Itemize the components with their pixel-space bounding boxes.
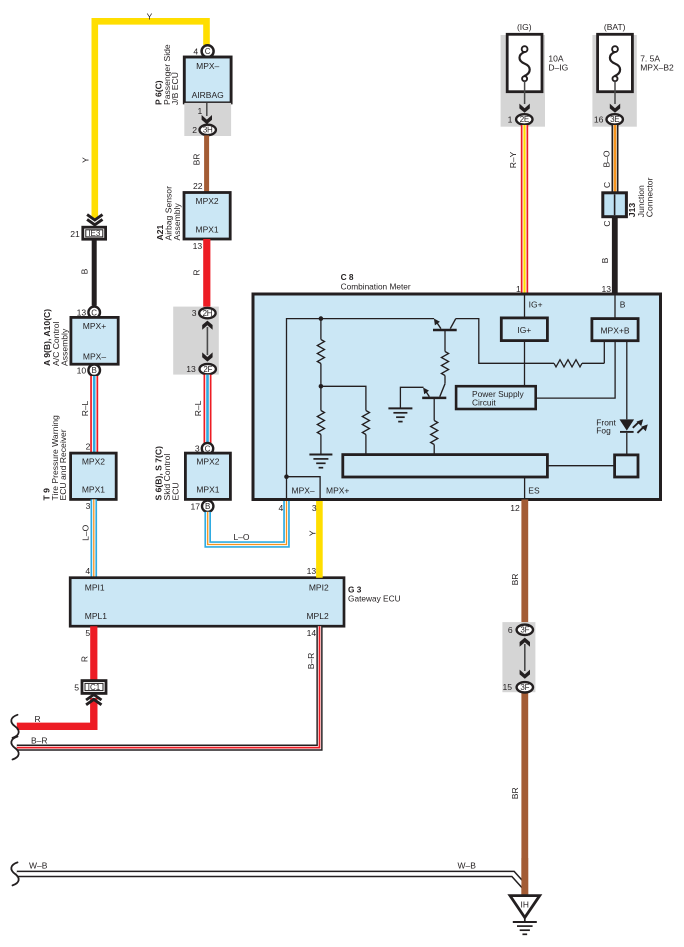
svg-text:MPX–B2: MPX–B2: [640, 62, 674, 72]
wire BR (over W-B junction): [521, 858, 528, 897]
wire BR (3H to A21): [204, 135, 209, 192]
svg-text:BR: BR: [510, 787, 520, 799]
svg-text:1: 1: [508, 114, 513, 124]
pin 10 connector B (A/C): [88, 364, 100, 376]
svg-text:MPL2: MPL2: [306, 611, 328, 621]
wire L-O (skid to meter MPX-): [208, 499, 287, 544]
connector 3F (pin 6): [517, 625, 533, 635]
svg-text:3F: 3F: [520, 626, 529, 635]
svg-text:5: 5: [74, 682, 79, 692]
svg-text:3: 3: [86, 501, 91, 511]
svg-text:12: 12: [510, 503, 520, 513]
wire R (A21 to 2H): [203, 239, 210, 308]
svg-text:MPX1: MPX1: [196, 485, 219, 495]
svg-text:2H: 2H: [203, 309, 213, 318]
wire L-O (T9 to gateway MPI1): [91, 499, 98, 577]
svg-text:L–O: L–O: [233, 532, 249, 542]
junction connector J13: [603, 193, 627, 217]
wire (B pin to MPX+B box): [614, 294, 616, 319]
svg-text:C 8: C 8: [341, 272, 354, 282]
connector 3H: [200, 125, 216, 135]
Skid Control ECU S6(B) S7(C): [185, 453, 230, 499]
Gateway ECU G3: [70, 578, 344, 627]
resistor R5: [431, 421, 438, 445]
svg-text:C: C: [602, 182, 612, 188]
wire (meter internal bus left): [287, 319, 435, 498]
svg-text:BR: BR: [191, 154, 201, 166]
svg-text:MPX+: MPX+: [83, 321, 106, 331]
svg-text:W–B: W–B: [29, 861, 48, 871]
svg-text:B: B: [600, 257, 610, 263]
svg-text:IG+: IG+: [517, 325, 531, 335]
svg-text:Assembly: Assembly: [172, 203, 182, 241]
svg-text:L–O: L–O: [80, 524, 90, 540]
svg-text:BR: BR: [510, 574, 520, 586]
svg-text:6: 6: [508, 625, 513, 635]
wire Y (meter MPX+ to gateway MPI2): [316, 499, 323, 577]
wire (Q2 emitter to ground): [400, 387, 423, 408]
svg-text:4: 4: [279, 503, 284, 513]
wire (MPX- / MPX+ terminal bracket): [287, 477, 321, 498]
wire B (IE3 to A/C pin 13): [92, 239, 97, 305]
svg-text:IC1: IC1: [88, 683, 101, 692]
svg-text:2F: 2F: [203, 365, 212, 374]
svg-text:ECU and Receiver: ECU and Receiver: [58, 429, 68, 500]
pin 13 connector C (A/C): [88, 307, 100, 319]
svg-text:MPX+: MPX+: [326, 486, 349, 496]
svg-text:R–L: R–L: [80, 400, 90, 416]
connector 3E: [607, 114, 623, 124]
wire (display bar to indicator square): [547, 465, 614, 467]
connector IE3 wire-end chevrons: [87, 215, 102, 220]
svg-text:MPX2: MPX2: [196, 196, 219, 206]
resistor R6: [554, 360, 582, 367]
wire-end chevrons (IC1): [86, 699, 101, 704]
wire (IG+ box to power supply circuit): [524, 341, 526, 387]
svg-text:2E: 2E: [520, 115, 529, 124]
svg-text:Fog: Fog: [596, 426, 611, 436]
pin 4 connector C (P6): [202, 45, 214, 57]
svg-text:MPX–: MPX–: [83, 351, 106, 361]
svg-text:ES: ES: [528, 486, 540, 496]
svg-text:B–O: B–O: [602, 150, 612, 167]
svg-text:R: R: [35, 714, 41, 724]
wire break squiggle (R): [11, 715, 18, 738]
svg-text:C: C: [91, 308, 97, 317]
Passenger Side J/B ECU P6(C): [184, 57, 231, 103]
ground IH: [510, 896, 540, 918]
svg-text:4: 4: [193, 47, 198, 57]
svg-text:B–R: B–R: [31, 735, 48, 745]
wire BR (3F to ground IH): [521, 687, 528, 897]
svg-text:MPX2: MPX2: [196, 457, 219, 467]
indicator square: [615, 455, 638, 477]
svg-text:3: 3: [192, 308, 197, 318]
svg-text:15: 15: [502, 682, 512, 692]
svg-text:16: 16: [594, 114, 604, 124]
svg-text:IH: IH: [521, 899, 529, 909]
transistor Q2: [422, 397, 446, 400]
svg-text:Circuit: Circuit: [472, 397, 496, 407]
wire break squiggle (B-R): [11, 737, 18, 760]
wire (MPX+B to power supply circuit): [536, 341, 615, 398]
wire Y (P6 pin 4 to IE3): [95, 21, 207, 218]
connector 2F: [200, 364, 216, 374]
svg-text:14: 14: [307, 628, 317, 638]
connector 2E: [516, 114, 532, 124]
transistor Q1: [433, 329, 457, 332]
svg-text:1: 1: [198, 106, 203, 116]
svg-text:MPX+B: MPX+B: [600, 325, 629, 335]
svg-text:4: 4: [85, 566, 90, 576]
wire R-L (2F to skid control): [204, 375, 212, 444]
svg-text:D–IG: D–IG: [548, 62, 568, 72]
svg-text:ECU: ECU: [170, 482, 180, 500]
svg-text:MPI1: MPI1: [85, 583, 105, 593]
svg-text:2: 2: [192, 125, 197, 135]
wire (IG+ pin to IG+ box): [524, 294, 526, 318]
svg-text:3F: 3F: [520, 683, 529, 692]
power supply circuit U1: [456, 386, 536, 409]
svg-text:13: 13: [77, 307, 87, 317]
svg-text:21: 21: [70, 229, 80, 239]
resistor R1: [317, 319, 324, 387]
A/C Control Assembly A9(B) A10(C): [71, 317, 118, 364]
svg-text:Combination Meter: Combination Meter: [341, 282, 411, 292]
LED D1 front fog: [620, 419, 635, 430]
node (MPX- junction): [284, 474, 289, 479]
svg-text:R–Y: R–Y: [508, 151, 518, 168]
connector arrows 2H-2F: [202, 321, 212, 330]
svg-text:MPX1: MPX1: [196, 224, 219, 234]
wire (MPX+B to front fog LED): [626, 341, 628, 420]
connector IC1: [82, 681, 106, 694]
svg-text:10: 10: [77, 365, 87, 375]
svg-text:J/B ECU: J/B ECU: [170, 72, 180, 105]
svg-text:B: B: [205, 502, 210, 511]
pin 17 connector B (skid): [202, 501, 213, 512]
svg-text:13: 13: [307, 566, 317, 576]
svg-text:17: 17: [190, 501, 200, 511]
svg-text:MPI2: MPI2: [309, 583, 329, 593]
svg-text:3H: 3H: [203, 126, 213, 135]
resistor R3: [362, 411, 369, 435]
node (mid junction): [319, 384, 324, 389]
svg-text:13: 13: [186, 364, 196, 374]
svg-text:IG+: IG+: [529, 300, 543, 310]
wire R-Y (2E to meter IG+): [521, 125, 528, 294]
Combination Meter C8: [253, 294, 661, 500]
svg-text:(IG): (IG): [517, 22, 532, 32]
wire R-L (A/C to T9): [90, 376, 98, 454]
connector 3F (pin 15): [517, 682, 533, 692]
Tire Pressure Warning ECU T9: [71, 453, 117, 499]
wire R (gateway MPL1 to IC1): [90, 626, 97, 680]
connector 3F block: [502, 622, 535, 692]
MPX+B box: [592, 319, 638, 341]
svg-text:2: 2: [86, 441, 91, 451]
resistor R2: [320, 386, 322, 410]
svg-text:B: B: [620, 300, 626, 310]
svg-text:B: B: [92, 366, 97, 375]
svg-text:Gateway ECU: Gateway ECU: [348, 594, 401, 604]
svg-text:MPX–: MPX–: [292, 486, 315, 496]
svg-text:C: C: [205, 47, 211, 56]
wire (display bar to ES pin): [524, 477, 526, 498]
svg-text:AIRBAG: AIRBAG: [192, 90, 224, 100]
svg-text:Connector: Connector: [645, 177, 655, 217]
IG+ box: [501, 318, 547, 341]
wire B-O (3E to J13): [612, 125, 619, 193]
svg-text:MPL1: MPL1: [85, 611, 107, 621]
svg-text:C: C: [602, 220, 612, 226]
wire (junction to R3): [321, 386, 366, 410]
svg-text:1: 1: [516, 284, 521, 294]
svg-text:Y: Y: [147, 11, 153, 21]
svg-text:13: 13: [601, 284, 611, 294]
node (top junction): [319, 316, 324, 321]
svg-text:5: 5: [85, 628, 90, 638]
svg-text:W–B: W–B: [458, 860, 477, 870]
svg-text:MPX1: MPX1: [82, 485, 105, 495]
svg-text:R: R: [80, 656, 90, 662]
connector 2H: [199, 308, 215, 318]
svg-text:3E: 3E: [610, 115, 619, 124]
svg-text:IE3: IE3: [88, 229, 101, 238]
svg-text:22: 22: [193, 181, 203, 191]
wire B-R (gateway MPL2 to left edge): [17, 626, 320, 747]
ground (below R2): [309, 454, 332, 456]
svg-text:MPX–: MPX–: [196, 61, 219, 71]
pin 3 connector C (skid): [202, 443, 213, 454]
svg-text:(BAT): (BAT): [604, 22, 626, 32]
svg-text:R: R: [191, 269, 201, 275]
connector 3H block: [184, 103, 231, 136]
resistor R4: [441, 352, 448, 376]
wire B (J13 to meter pin 13): [612, 217, 618, 294]
Airbag Sensor Assembly A21: [184, 193, 230, 240]
svg-text:B: B: [80, 268, 90, 274]
svg-text:MPX2: MPX2: [82, 457, 105, 467]
display bar (meter internal box): [343, 455, 548, 477]
wire BR (meter ES to 3F): [521, 500, 528, 630]
ground (Q2 emitter): [388, 407, 412, 409]
svg-text:R–L: R–L: [193, 400, 203, 416]
svg-text:Assembly: Assembly: [60, 328, 70, 366]
wire W-B (left edge to ground junction): [17, 874, 525, 887]
svg-text:Y: Y: [80, 157, 90, 163]
svg-text:3: 3: [312, 503, 317, 513]
wire (Q1 collector to resistor R6): [456, 319, 554, 364]
wire R (IC1 to left edge): [17, 698, 94, 726]
connector arrows 3F: [520, 638, 530, 647]
wire break squiggle (W-B): [11, 862, 18, 885]
connector 2H/2F block: [173, 307, 219, 375]
svg-text:Y: Y: [308, 530, 318, 536]
svg-text:13: 13: [193, 241, 203, 251]
svg-text:B–R: B–R: [306, 653, 316, 670]
connector IE3: [83, 227, 106, 239]
